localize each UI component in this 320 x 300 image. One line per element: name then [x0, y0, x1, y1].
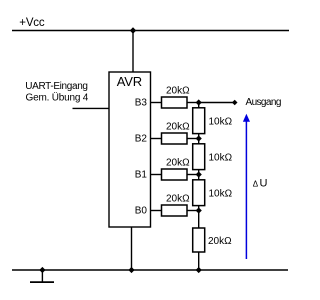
- resistor R8 20k body: [193, 228, 205, 252]
- wire UART pointer: [73, 107, 110, 109]
- resistor R3 20k body: [162, 169, 188, 180]
- junction on Vcc rail: [130, 27, 136, 33]
- svg-text:Gem. Übung 4: Gem. Übung 4: [26, 92, 89, 104]
- wire R1 to rail: [187, 102, 199, 104]
- wire pin B3: [151, 102, 163, 104]
- resistor R2 20k body: [162, 133, 188, 144]
- resistor R6 10k body: [193, 144, 205, 170]
- junction node B0 on rail: [196, 207, 202, 213]
- junction node B2 on rail: [196, 135, 202, 141]
- junction AVR-ground: [128, 267, 134, 273]
- svg-text:AVR: AVR: [117, 74, 142, 89]
- svg-text:B2: B2: [135, 133, 148, 144]
- wire output: [199, 102, 233, 104]
- wire R4 to rail: [187, 210, 199, 212]
- ground: [41, 270, 43, 282]
- wire pin B1: [151, 174, 163, 176]
- output terminal diamond: [232, 100, 238, 106]
- wire Vcc to AVR top: [132, 31, 134, 73]
- svg-text:20kΩ: 20kΩ: [166, 122, 190, 133]
- wire ladder rail vertical: [198, 103, 200, 271]
- svg-text:U: U: [260, 178, 268, 190]
- wire AVR bottom to ground rail: [131, 227, 133, 270]
- resistor R5 10k body: [193, 108, 205, 134]
- op-amp U1 AVR box: [109, 72, 151, 227]
- junction ground symbol node: [39, 267, 45, 273]
- svg-text:B0: B0: [135, 205, 148, 216]
- svg-text:+Vcc: +Vcc: [19, 17, 45, 29]
- resistor R7 10k body: [193, 180, 205, 206]
- svg-text:Δ: Δ: [253, 180, 259, 189]
- svg-text:B3: B3: [135, 97, 148, 108]
- wire pin B2: [151, 138, 163, 140]
- svg-text:UART-Eingang: UART-Eingang: [25, 81, 87, 92]
- junction ladder-ground: [196, 267, 202, 273]
- resistor R1 20k body: [162, 97, 188, 108]
- svg-text:B1: B1: [135, 169, 148, 180]
- resistor R4 20k body: [162, 205, 188, 216]
- svg-text:20kΩ: 20kΩ: [166, 158, 190, 169]
- junction node B1 on rail: [196, 171, 202, 177]
- svg-text:10kΩ: 10kΩ: [209, 116, 233, 127]
- svg-text:20kΩ: 20kΩ: [208, 236, 232, 247]
- wire R3 to rail: [187, 174, 199, 176]
- wire pin B0: [151, 210, 163, 212]
- junction node B3 on rail: [196, 99, 202, 105]
- svg-text:10kΩ: 10kΩ: [209, 152, 233, 163]
- svg-text:20kΩ: 20kΩ: [166, 194, 190, 205]
- wire R2 to rail: [187, 138, 199, 140]
- svg-text:20kΩ: 20kΩ: [166, 86, 190, 97]
- arrow delta-U (blue): [245, 119, 247, 259]
- svg-text:10kΩ: 10kΩ: [209, 188, 233, 199]
- svg-text:Ausgang: Ausgang: [246, 97, 281, 108]
- wire bottom ground rail: [12, 269, 288, 271]
- wire top +Vcc rail: [12, 30, 289, 32]
